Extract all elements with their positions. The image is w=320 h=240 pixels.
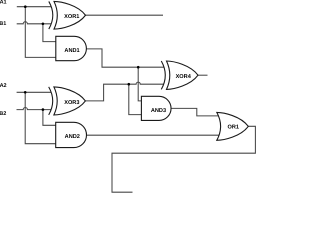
svg-text:B2: B2: [0, 111, 6, 117]
svg-text:AND2: AND2: [65, 134, 80, 140]
svg-text:XOR1: XOR1: [64, 14, 79, 20]
svg-text:B1: B1: [0, 21, 6, 27]
svg-text:XOR4: XOR4: [176, 74, 192, 80]
svg-text:OR1: OR1: [227, 125, 239, 131]
svg-text:A1: A1: [0, 0, 7, 6]
svg-text:A2: A2: [0, 83, 7, 89]
svg-text:XOR3: XOR3: [64, 100, 79, 106]
svg-text:AND3: AND3: [151, 108, 166, 114]
svg-text:AND1: AND1: [64, 48, 79, 54]
